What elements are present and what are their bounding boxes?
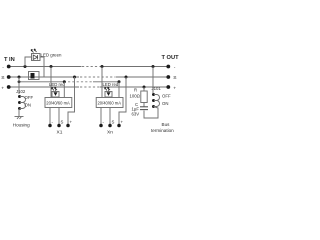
ferrite box on S rail: [29, 72, 40, 80]
terminal X1 minus: [48, 120, 53, 128]
LED red D2: [52, 87, 60, 97]
wire rail2 S solid left: [9, 76, 168, 78]
svg-text:OFF: OFF: [25, 95, 34, 100]
node rail2 X1 plus-drop tap: [73, 76, 76, 79]
node rail1 Xn tap: [101, 65, 104, 68]
svg-text:Housing: Housing: [13, 123, 30, 128]
wire Xn right drop with bend: [119, 77, 126, 125]
svg-text:ON: ON: [162, 101, 168, 106]
wire X1 S drop: [63, 82, 65, 98]
terminal T OUT S: [166, 75, 177, 81]
terminal T IN plus: [1, 85, 10, 91]
resistor R 100 Ohm: [141, 91, 147, 103]
svg-text:LED green: LED green: [41, 53, 63, 58]
wire Xn terminal drops: [100, 108, 102, 125]
terminal X1 plus: [66, 120, 72, 128]
node S feed J102 junction: [18, 80, 21, 83]
svg-text:OFF: OFF: [162, 94, 171, 99]
svg-text:20/40/60 mA: 20/40/60 mA: [46, 101, 70, 106]
wire rail2 dashed gap: [80, 76, 115, 78]
svg-text:S: S: [173, 75, 177, 81]
svg-text:S: S: [1, 75, 5, 81]
wire S feed line solid left: [19, 81, 66, 83]
wire J102 drop: [18, 77, 20, 94]
node rail1 X1 tap: [50, 65, 53, 68]
wire X1 terminal drops: [49, 108, 51, 125]
current box X1 20/40/60 mA: [45, 98, 72, 108]
wire rail1 minus T IN to T OUT solid left: [9, 66, 168, 68]
wire X1 right drop with bend: [68, 77, 75, 125]
wire Xn minus drop: [101, 67, 103, 98]
svg-text:LED red: LED red: [103, 82, 119, 87]
node rail1 J101 tap: [152, 65, 155, 68]
svg-text:+: +: [1, 86, 4, 91]
wire S feed line dashed gap: [68, 81, 93, 83]
terminal T IN S: [1, 75, 10, 81]
svg-text:R: R: [134, 88, 137, 93]
terminal Xn minus: [99, 120, 104, 128]
svg-text:X1: X1: [57, 130, 63, 136]
svg-text:S: S: [61, 120, 64, 125]
wire R drop: [143, 87, 145, 91]
svg-text:+: +: [173, 86, 176, 91]
svg-text:ON: ON: [25, 103, 31, 108]
terminal T IN minus: [2, 65, 10, 71]
svg-text:S: S: [112, 120, 115, 125]
wire LED green branch: [25, 57, 32, 67]
wire S feed line solid right: [93, 81, 119, 83]
svg-text:Xn: Xn: [107, 130, 113, 136]
svg-text:termination: termination: [151, 128, 174, 133]
terminal Xn S: [108, 120, 114, 128]
wire rail3 dashed gap: [80, 86, 99, 88]
wire rail2 solid right: [116, 76, 169, 78]
terminal T OUT plus: [166, 85, 176, 91]
svg-text:-: -: [103, 120, 105, 125]
svg-text:20/40/60 mA: 20/40/60 mA: [98, 101, 122, 106]
svg-text:63V: 63V: [132, 112, 140, 117]
svg-text:T IN: T IN: [4, 57, 15, 63]
svg-text:T OUT: T OUT: [162, 55, 180, 61]
wire J101 drop: [152, 67, 154, 94]
svg-text:-: -: [174, 65, 176, 70]
wire rail3 solid right: [100, 86, 169, 88]
terminal Xn plus: [117, 120, 123, 128]
svg-text:J102: J102: [16, 89, 26, 94]
wire rail1 dashed gap: [82, 66, 99, 68]
svg-text:100Ω: 100Ω: [130, 94, 141, 99]
wire Xn S drop: [118, 82, 120, 98]
svg-text:+: +: [70, 120, 73, 125]
terminal X1 S: [57, 120, 63, 128]
node S feed Xn tap: [118, 80, 121, 83]
jumper J102: [18, 95, 26, 110]
wire rail1 solid right: [100, 66, 169, 68]
svg-text:Bus: Bus: [162, 122, 171, 127]
wire J102 to housing ground: [18, 109, 21, 117]
wire R to C: [143, 103, 145, 107]
svg-text:LED red: LED red: [49, 82, 65, 87]
svg-text:-: -: [2, 65, 4, 70]
node rail2 J102 tap: [18, 76, 21, 79]
LED red D3: [105, 87, 113, 97]
svg-text:+: +: [121, 120, 124, 125]
LED green D1: [31, 49, 40, 61]
svg-text:J101: J101: [152, 86, 162, 91]
node S feed X1 tap: [63, 80, 66, 83]
terminal T OUT minus: [166, 65, 175, 71]
ground housing: [15, 117, 24, 120]
wire J101 to RC bottom: [144, 107, 158, 119]
current box Xn 20/40/60 mA: [96, 98, 123, 108]
capacitor C 1uF 63V: [140, 107, 148, 110]
node rail3 R tap: [143, 86, 146, 89]
jumper J101: [152, 93, 160, 108]
wire X1 minus drop: [50, 67, 52, 98]
node rail2 Xn plus-drop tap: [125, 76, 128, 79]
wire rail3 plus solid left: [9, 86, 168, 88]
svg-text:-: -: [52, 120, 54, 125]
node rail1 LED-green left tap: [24, 65, 27, 68]
